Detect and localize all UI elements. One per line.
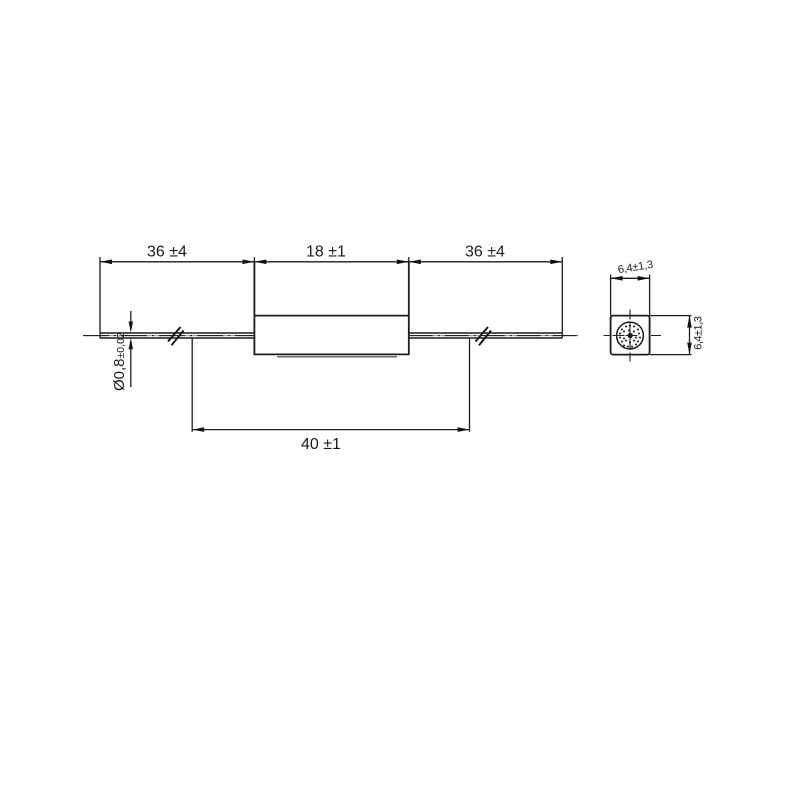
wire core dot bbox=[628, 333, 633, 338]
right lead wire bbox=[409, 333, 563, 338]
arrow left of 18 dim (tip at 254.4) bbox=[254, 260, 266, 265]
diameter dimension vertical line upper bbox=[130, 311, 132, 324]
extension line left at x=100 bbox=[99, 257, 101, 338]
arrow right of 18 dim (tip at 408.8) bbox=[397, 260, 409, 265]
arrow right end (tip at 562.3) bbox=[550, 260, 562, 265]
stipple dots in circle bbox=[619, 324, 641, 347]
left lead break symbol bbox=[168, 327, 184, 345]
diameter upper arrow (tip at lead top) bbox=[129, 322, 133, 333]
wire cross-section circle bbox=[617, 322, 644, 349]
end view right dim bottom arrow bbox=[687, 343, 692, 355]
top dimension line bbox=[100, 261, 562, 263]
left lead centerline bbox=[83, 335, 254, 337]
right lead break symbol bbox=[476, 327, 492, 345]
end view top dimension line bbox=[611, 277, 650, 279]
end view right dimension line bbox=[689, 316, 691, 355]
end view top dim left arrow bbox=[611, 276, 623, 281]
extension line above body left edge bbox=[253, 257, 255, 262]
end view right dim top arrow bbox=[687, 316, 692, 328]
diameter lower arrow (tip at lead bottom) bbox=[129, 338, 133, 349]
end view top dim extension left bbox=[610, 275, 612, 316]
right lead centerline bbox=[409, 335, 579, 337]
end view square bbox=[611, 316, 650, 355]
arrow left 36 dim (tip at 100) bbox=[100, 260, 112, 265]
arrow right of left 36 dim (tip at 254.4) bbox=[242, 260, 254, 265]
end view horizontal centerline bbox=[604, 335, 662, 337]
end view top dim extension right bbox=[649, 275, 651, 316]
40 dim extension line left bbox=[191, 339, 193, 432]
40 dim right arrow bbox=[458, 427, 470, 432]
40 dim extension line right bbox=[469, 339, 471, 432]
diameter dimension vertical line lower bbox=[130, 347, 132, 387]
end view right dim extension bottom bbox=[650, 354, 692, 356]
end view vertical centerline bbox=[629, 310, 631, 362]
svg-text:36 ±4: 36 ±4 bbox=[465, 243, 505, 260]
left lead wire bbox=[100, 333, 254, 338]
extension line right at lead end bbox=[561, 257, 563, 338]
40 dimension line bbox=[192, 429, 469, 431]
resistor body outline bbox=[254, 262, 408, 355]
end view right dim extension top bbox=[650, 315, 692, 317]
extension line above body right edge bbox=[408, 257, 410, 262]
40 dim left arrow bbox=[192, 427, 204, 432]
svg-text:36 ±4: 36 ±4 bbox=[147, 243, 187, 260]
end view top dim right arrow bbox=[638, 276, 650, 281]
body bottom shadow line bbox=[277, 356, 397, 358]
svg-text:6,4±1,3: 6,4±1,3 bbox=[692, 316, 704, 350]
svg-text:18 ±1: 18 ±1 bbox=[306, 243, 346, 260]
svg-text:40 ±1: 40 ±1 bbox=[301, 436, 341, 453]
arrow left of right 36 dim (tip at 408.8) bbox=[409, 260, 421, 265]
